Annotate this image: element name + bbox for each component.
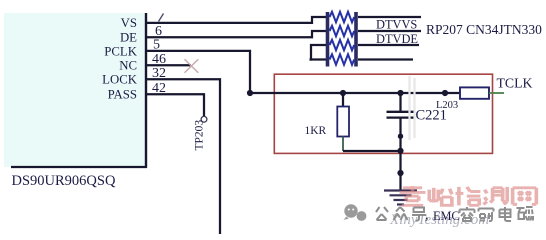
- pin number 7: [159, 14, 164, 22]
- resistor element row1: [330, 12, 355, 22]
- svg-text:NC: NC: [119, 58, 137, 72]
- test point TP203 circle: [201, 116, 207, 122]
- resistor element row3: [330, 40, 355, 50]
- svg-text:DTVVS: DTVVS: [376, 18, 417, 32]
- caption text rong-guan-dian-ci (simulated strokes): [460, 207, 534, 221]
- wire RP207 row2 right (net DTVVS): [358, 30, 421, 32]
- svg-text:DS90UR906QSQ: DS90UR906QSQ: [12, 173, 116, 189]
- junction dot above 1KR: [340, 90, 346, 96]
- wire RP207 row4 right: [358, 58, 413, 60]
- wire PCLK pin to node: [146, 51, 250, 93]
- junction dot at 1KR wire: [397, 148, 403, 154]
- svg-text:PCLK: PCLK: [104, 44, 137, 58]
- main node wire: [250, 92, 460, 94]
- svg-text:PASS: PASS: [108, 88, 137, 102]
- svg-text:L203: L203: [436, 100, 458, 111]
- wire PASS pin to test point: [146, 94, 204, 116]
- resistor element row4: [330, 54, 355, 64]
- junction dot mid lead: [398, 134, 403, 139]
- wire RP207 row4 left stub: [310, 58, 327, 60]
- svg-text:LOCK: LOCK: [102, 72, 138, 86]
- watermark big pink text (simulated CJK strokes): [400, 186, 537, 205]
- IC U1 DS90UR906QSQ body: [4, 13, 147, 168]
- svg-text:,: ,: [425, 208, 429, 223]
- capacitor C221 bottom lead down to ground: [399, 118, 401, 190]
- junction dot at PCLK corner: [247, 90, 253, 96]
- svg-text:TP203: TP203: [194, 120, 206, 151]
- capacitor C221 bottom plate: [387, 116, 415, 118]
- resistor pack RP207 left bar: [326, 12, 330, 67]
- watermark gray band near C221: [410, 76, 415, 140]
- ground symbol: [384, 191, 417, 205]
- resistor R 1KR body: [337, 107, 349, 137]
- svg-text:TCLK: TCLK: [497, 76, 533, 91]
- wire RP207 row1 right: [358, 16, 421, 18]
- wire RP207 row3 right (net DTVDE): [358, 44, 419, 46]
- resistor pack RP207 right bar: [354, 12, 358, 67]
- capacitor C221 top lead: [399, 93, 401, 112]
- svg-text:1KR: 1KR: [305, 125, 327, 137]
- wire NC pin stub: [146, 64, 191, 66]
- red highlight box: [274, 74, 492, 153]
- resistor R 1KR bottom lead (green): [342, 137, 344, 152]
- wire L203 right green stub (net TCLK): [489, 92, 504, 94]
- svg-text:RP207 CN34JTN330: RP207 CN34JTN330: [426, 22, 542, 37]
- svg-text:EMC: EMC: [433, 209, 460, 223]
- caption text gong-zhong-hao (simulated strokes): [376, 207, 426, 221]
- svg-text:DTVDE: DTVDE: [376, 32, 418, 46]
- wire LOCK pin long vertical: [146, 79, 220, 234]
- junction dot before L203: [442, 90, 448, 96]
- wire DE pin to RP207 with jog: [146, 31, 327, 37]
- junction dot above C221: [397, 90, 403, 96]
- junction dot below box: [397, 170, 403, 176]
- resistor R 1KR top lead: [342, 93, 344, 107]
- wire tying RP207 rows 3 and 4 on left: [310, 45, 327, 60]
- inductor L203 body: [460, 87, 489, 98]
- wechat logo gray: [344, 204, 367, 221]
- svg-text:DE: DE: [120, 31, 137, 45]
- svg-text:VS: VS: [121, 16, 137, 30]
- resistor element row2: [330, 26, 355, 36]
- no-connect X on NC pin: [185, 59, 199, 73]
- wire 1KR bottom to C221 bottom: [343, 150, 401, 152]
- capacitor C221 top plate: [387, 111, 415, 113]
- wire VS pin to RP207 with jog: [146, 17, 327, 23]
